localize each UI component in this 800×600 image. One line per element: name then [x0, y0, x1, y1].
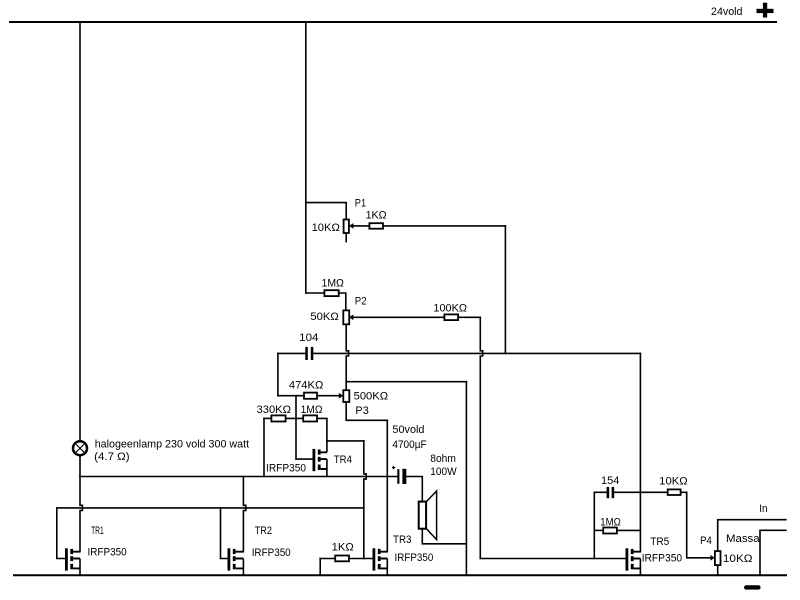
wire V12 down to TR5 gate line [593, 492, 595, 558]
wire between 330K and 1M [286, 417, 304, 419]
transistor TR3 [373, 548, 388, 575]
wire V6 cap branch down [278, 353, 304, 395]
speaker 8ohm 100W [419, 491, 437, 540]
potentiometer P4 [710, 551, 720, 565]
svg-text:TR5: TR5 [650, 536, 669, 548]
resistor 10K right [668, 489, 681, 495]
svg-text:TR3: TR3 [393, 534, 412, 546]
wire V10 TR4 drain to TR3 gate with jog over drain bus [364, 441, 366, 559]
wire top +24V rail [10, 21, 776, 23]
wire P2 wiper to 100K [353, 316, 444, 318]
svg-text:100W: 100W [430, 466, 457, 478]
wire 474K to P3 arrow [317, 395, 339, 397]
resistor 1K (TR3 gate) [335, 556, 349, 562]
svg-text:10KΩ: 10KΩ [723, 553, 753, 565]
wire 104 line to right corner [313, 352, 640, 354]
svg-text:(4.7 Ω): (4.7 Ω) [94, 451, 129, 463]
wire TR2 drain vertical with jog over gate bus [243, 477, 245, 552]
wire P2 bottom to P3 top with jog over 104 line [346, 324, 348, 390]
lamp halogen [73, 441, 87, 455]
wire 154 line left corner [594, 491, 606, 493]
wire TR1 drain vertical with jog over gate bus [80, 477, 82, 552]
capacitor 104 [305, 347, 313, 360]
resistor 1M upper [324, 290, 338, 296]
svg-text:IRFP350: IRFP350 [252, 547, 291, 559]
wire 1M right resistor left [594, 529, 603, 531]
potentiometer P3 [339, 390, 350, 402]
wire 330K left wire [264, 417, 271, 419]
svg-text:IRFP350: IRFP350 [266, 462, 306, 474]
transistor TR4 [313, 441, 327, 477]
wire 10K to P4 corner [681, 492, 711, 558]
wire V5 down to TR5 gate with jog over 104 line [480, 317, 482, 558]
transistor TR1 [65, 548, 80, 575]
svg-text:50KΩ: 50KΩ [310, 311, 338, 323]
svg-text:In: In [759, 503, 767, 515]
wire TR1 gate rail [57, 508, 65, 559]
capacitor 4700uF electrolytic [392, 466, 406, 484]
wire P1 bottom stub [345, 233, 347, 242]
svg-text:TR4: TR4 [334, 454, 352, 466]
capacitor 154 [607, 487, 615, 498]
wire lamp to drain bus [79, 456, 81, 477]
svg-text:10KΩ: 10KΩ [312, 222, 340, 234]
transistor TR2 [228, 548, 244, 575]
resistor 1M lower [303, 415, 317, 421]
wire drain bus 477 [80, 476, 397, 478]
svg-text:halogeenlamp 230 vold 300 watt: halogeenlamp 230 vold 300 watt [95, 438, 249, 450]
minus supply symbol [744, 585, 761, 589]
wire P3 bottom to TR3 drain vertical [346, 402, 387, 420]
wire V2 top rail down to 1M row [305, 22, 307, 293]
svg-text:P1: P1 [355, 197, 366, 209]
svg-text:10KΩ: 10KΩ [659, 475, 688, 487]
svg-text:1MΩ: 1MΩ [322, 278, 344, 290]
wire TR4 drain line [327, 440, 364, 442]
wire V1 top rail to lamp [79, 22, 81, 441]
potentiometer P1 [344, 220, 354, 234]
svg-text:24vold: 24vold [711, 6, 743, 18]
svg-text:474KΩ: 474KΩ [289, 379, 323, 391]
svg-text:P3: P3 [355, 405, 368, 417]
wire TR5 gate horizontal [480, 558, 625, 560]
wire P1 feed branch [306, 203, 346, 220]
svg-text:104: 104 [299, 332, 318, 344]
wire bottom ground rail [14, 574, 786, 576]
wire cap4700 to speaker corner [406, 477, 422, 502]
svg-text:IRFP350: IRFP350 [395, 552, 434, 564]
wire speaker bottom to feedback line [422, 529, 466, 544]
svg-text:IRFP350: IRFP350 [642, 553, 682, 565]
wire TR3 drain vertical [386, 420, 388, 551]
wire V8 330K to drain bus [263, 418, 265, 476]
transistor TR5 [626, 548, 641, 575]
resistor 1K (P1) [369, 223, 383, 229]
wire V7 TR4 gate vertical [296, 396, 313, 459]
resistor 1M right [603, 528, 617, 534]
svg-text:P2: P2 [355, 296, 367, 308]
wire 1K resistor to V3 corner [383, 225, 505, 227]
potentiometer P2 [343, 310, 353, 324]
svg-text:100KΩ: 100KΩ [433, 302, 467, 314]
svg-text:154: 154 [601, 475, 619, 487]
wire gate bus 508 [57, 507, 364, 509]
wire 1K resistor to TR3 gate [349, 558, 373, 560]
svg-text:330KΩ: 330KΩ [257, 404, 292, 416]
svg-text:IRFP350: IRFP350 [88, 547, 127, 559]
wire V11 down to TR5 drain [639, 353, 641, 551]
wire V3 down to 104 line [504, 226, 506, 354]
wire feedback line from P3 top node [346, 381, 466, 383]
wire V14 feedback down to ground rail [465, 382, 467, 576]
svg-text:4700µF: 4700µF [392, 439, 426, 451]
wire 1M right resistor right [617, 529, 641, 531]
svg-text:TR2: TR2 [255, 525, 272, 537]
wire 1M upper right to P2 top [339, 293, 346, 310]
wire TR2 gate rail [221, 508, 228, 559]
svg-text:1MΩ: 1MΩ [600, 517, 621, 529]
svg-text:500KΩ: 500KΩ [354, 391, 389, 403]
plus supply symbol [757, 3, 774, 18]
svg-text:1MΩ: 1MΩ [301, 404, 323, 416]
wire P4 bottom [717, 565, 719, 575]
wire 100K to V5 [458, 316, 480, 318]
wire Massa line [760, 530, 786, 575]
wire 1M upper left [306, 292, 325, 294]
resistor 474K [304, 393, 317, 399]
svg-text:50vold: 50vold [392, 424, 424, 436]
wire P1 wiper to 1K resistor [353, 225, 369, 227]
svg-text:Massa: Massa [726, 533, 761, 545]
wire P4 top to In line [718, 520, 786, 551]
svg-text:TR1: TR1 [91, 525, 104, 537]
svg-text:1KΩ: 1KΩ [332, 542, 354, 554]
wire 1K pulldown to resistor [320, 558, 335, 560]
wire 1M lower right [317, 418, 327, 441]
svg-text:P4: P4 [700, 535, 712, 547]
resistor 100K [444, 314, 458, 320]
wire 1K pulldown left leg [319, 559, 321, 576]
wire 104 line left of cap [278, 352, 306, 354]
wire 154 line cap to 10K [614, 491, 668, 493]
svg-text:1KΩ: 1KΩ [366, 209, 387, 221]
resistor 330K [271, 415, 285, 421]
svg-text:8ohm: 8ohm [430, 453, 456, 465]
